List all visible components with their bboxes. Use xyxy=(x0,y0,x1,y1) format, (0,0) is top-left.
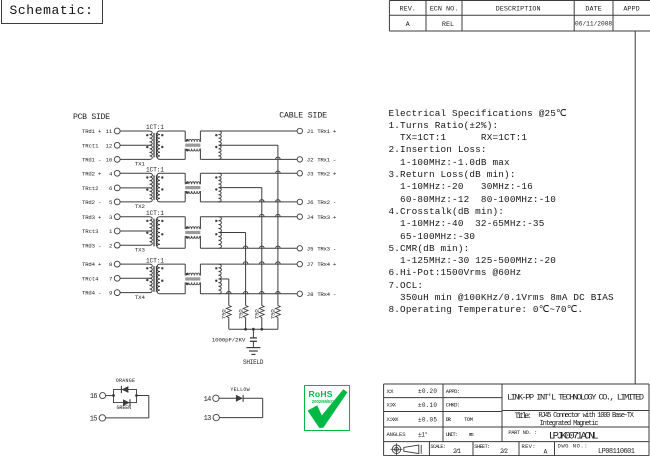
svg-text:TRd1 -: TRd1 - xyxy=(82,157,101,164)
svg-text:REL: REL xyxy=(442,21,454,29)
svg-text:DESCRIPTION: DESCRIPTION xyxy=(496,5,541,13)
svg-text:±1°: ±1° xyxy=(418,431,428,438)
svg-text:SCALE:: SCALE: xyxy=(430,444,446,450)
svg-text:Title:: Title: xyxy=(515,412,532,421)
svg-text:TRx2 +: TRx2 + xyxy=(317,170,337,177)
svg-text:GREEN: GREEN xyxy=(117,405,132,411)
svg-text:2/1: 2/1 xyxy=(453,448,461,455)
svg-text:TRd2 +: TRd2 + xyxy=(82,170,102,177)
svg-text:TRd4 -: TRd4 - xyxy=(82,290,101,297)
svg-text:6: 6 xyxy=(109,185,112,192)
svg-text:A: A xyxy=(544,449,548,456)
svg-text:2: 2 xyxy=(109,242,112,249)
svg-text:TRx4 +: TRx4 + xyxy=(317,261,337,268)
svg-text:X:XX: X:XX xyxy=(387,402,397,409)
svg-text:1: 1 xyxy=(109,228,113,235)
svg-text:TRx3 +: TRx3 + xyxy=(317,214,337,221)
svg-text:TRx1 +: TRx1 + xyxy=(317,128,337,135)
svg-text:TRx1 -: TRx1 - xyxy=(317,157,336,164)
svg-text:J4: J4 xyxy=(307,214,314,221)
svg-text:1CT:1: 1CT:1 xyxy=(146,167,164,174)
svg-text:3: 3 xyxy=(109,214,112,221)
svg-text:11: 11 xyxy=(106,128,113,135)
svg-text:J2: J2 xyxy=(307,157,314,164)
svg-text:YELLOW: YELLOW xyxy=(230,387,249,393)
svg-text:DR:: DR: xyxy=(446,416,452,423)
svg-text:±0.05: ±0.05 xyxy=(418,416,437,423)
svg-text:J7: J7 xyxy=(307,261,314,268)
svg-text:16: 16 xyxy=(90,393,98,401)
svg-text:8: 8 xyxy=(109,261,112,268)
svg-text:TRx2 -: TRx2 - xyxy=(317,199,336,206)
svg-text:TRct3: TRct3 xyxy=(82,228,99,235)
svg-text:75Ω: 75Ω xyxy=(237,309,244,320)
svg-text:DATE: DATE xyxy=(585,5,601,13)
svg-text:TRct4: TRct4 xyxy=(82,275,99,282)
svg-text:J1: J1 xyxy=(307,128,314,135)
svg-text:±0.20: ±0.20 xyxy=(418,388,437,395)
svg-text:ECN NO.: ECN NO. xyxy=(430,5,459,13)
svg-text:J3: J3 xyxy=(307,170,314,177)
svg-text:DWG NO.:: DWG NO.: xyxy=(558,442,588,449)
svg-text:SHIELD: SHIELD xyxy=(243,359,264,366)
svg-text:APPD:: APPD: xyxy=(446,388,460,395)
svg-text:1CT:1: 1CT:1 xyxy=(146,124,164,131)
svg-text:06/11/2008: 06/11/2008 xyxy=(575,21,612,28)
svg-text:14: 14 xyxy=(204,396,212,404)
svg-text:TRx4 -: TRx4 - xyxy=(317,291,336,298)
svg-text:7: 7 xyxy=(109,275,112,282)
svg-text:PCB SIDE: PCB SIDE xyxy=(73,113,110,122)
svg-text:4: 4 xyxy=(109,170,113,177)
svg-text:TX2: TX2 xyxy=(135,203,146,210)
svg-text:J6: J6 xyxy=(307,199,314,206)
svg-text:CABLE SIDE: CABLE SIDE xyxy=(279,112,327,121)
svg-text:10: 10 xyxy=(106,157,113,164)
svg-text:TX4: TX4 xyxy=(135,294,146,301)
svg-text:LP08110601: LP08110601 xyxy=(598,448,635,456)
svg-text:LINK-PP INT'L TECHNOLOGY CO.,: LINK-PP INT'L TECHNOLOGY CO., LIMITED xyxy=(507,393,644,403)
svg-text:TX3: TX3 xyxy=(135,247,146,254)
svg-text:APPD: APPD xyxy=(623,5,639,13)
svg-text:15: 15 xyxy=(90,416,98,424)
svg-text:X:XXX: X:XXX xyxy=(387,416,400,423)
svg-text:75Ω: 75Ω xyxy=(254,309,261,320)
svg-text:75Ω: 75Ω xyxy=(221,309,228,320)
svg-text:±0.10: ±0.10 xyxy=(418,402,437,409)
svg-text:REV:: REV: xyxy=(522,443,536,450)
svg-text:TX1: TX1 xyxy=(135,161,146,168)
svg-text:12: 12 xyxy=(106,142,113,149)
svg-text:TRd3 +: TRd3 + xyxy=(82,214,102,221)
svg-text:X:X: X:X xyxy=(387,388,395,395)
svg-text:TOM: TOM xyxy=(464,416,473,423)
svg-text:TRd2 -: TRd2 - xyxy=(82,199,101,206)
svg-text:TRd3 -: TRd3 - xyxy=(82,242,101,249)
svg-text:75Ω: 75Ω xyxy=(270,309,277,320)
svg-text:1CT:1: 1CT:1 xyxy=(146,210,164,217)
svg-text:TRx3 -: TRx3 - xyxy=(317,245,336,252)
svg-text:1000pF/2KV: 1000pF/2KV xyxy=(212,337,246,344)
svg-text:CHKD:: CHKD: xyxy=(446,402,460,409)
svg-text:J5: J5 xyxy=(307,245,314,252)
svg-text:J8: J8 xyxy=(307,291,314,298)
svg-text:ORANGE: ORANGE xyxy=(116,378,135,384)
svg-text:REV.: REV. xyxy=(400,5,416,13)
svg-text:RJ45 Connector with 1000 Base-: RJ45 Connector with 1000 Base-TX xyxy=(538,412,634,420)
svg-text:TRct2: TRct2 xyxy=(82,185,99,192)
svg-text:13: 13 xyxy=(204,415,212,423)
svg-text:LPJK0071AONL: LPJK0071AONL xyxy=(549,430,599,442)
svg-text:2/2: 2/2 xyxy=(500,448,508,455)
svg-text:1CT:1: 1CT:1 xyxy=(146,257,164,264)
svg-text:UNIT:: UNIT: xyxy=(446,431,458,438)
svg-text:SHEET:: SHEET: xyxy=(474,444,490,450)
svg-text:mm: mm xyxy=(469,431,474,438)
svg-text:PART NO. :: PART NO. : xyxy=(508,430,537,436)
svg-text:5: 5 xyxy=(109,199,112,206)
svg-text:9: 9 xyxy=(109,290,112,297)
svg-text:ANGLES: ANGLES xyxy=(387,431,407,438)
svg-text:TRct1: TRct1 xyxy=(82,142,99,149)
svg-text:Integrated Magnetic: Integrated Magnetic xyxy=(540,420,599,428)
svg-text:TRd4 +: TRd4 + xyxy=(82,261,102,268)
svg-text:A: A xyxy=(406,21,411,29)
svg-text:TRd1 +: TRd1 + xyxy=(82,128,102,135)
